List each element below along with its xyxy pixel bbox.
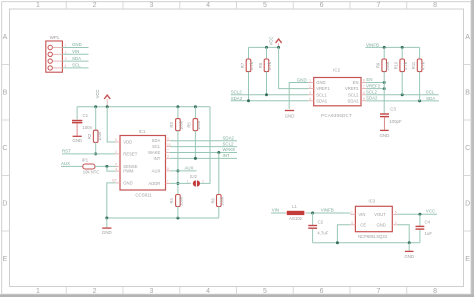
svg-text:CE: CE xyxy=(360,222,366,227)
svg-text:C4: C4 xyxy=(425,220,431,225)
wire net SCL2 (to IC2 SCL1) xyxy=(231,94,309,96)
svg-text:3: 3 xyxy=(167,155,169,159)
page edge right xyxy=(471,0,474,297)
solder jumper SJ2 xyxy=(187,174,204,187)
svg-text:L1: L1 xyxy=(292,204,297,209)
svg-text:E: E xyxy=(3,256,8,263)
frame column ticks bottom xyxy=(66,287,407,295)
svg-text:R11: R11 xyxy=(411,61,416,69)
svg-text:R9: R9 xyxy=(376,62,381,68)
junction VCC/R3 xyxy=(176,105,179,108)
svg-text:GND: GND xyxy=(297,77,307,82)
svg-text:1: 1 xyxy=(167,180,169,184)
junction R2/RST xyxy=(94,152,97,155)
svg-text:1: 1 xyxy=(309,79,311,83)
svg-text:SDA: SDA xyxy=(426,96,435,101)
wire IC2 GND pin xyxy=(289,83,308,109)
svg-text:2: 2 xyxy=(395,221,397,225)
wire VCC to VREF1 xyxy=(279,47,309,88)
wire CE to bottom rail xyxy=(337,225,350,243)
wire strap to PWM xyxy=(107,166,116,171)
svg-text:SCL: SCL xyxy=(152,144,161,149)
frame row ticks left xyxy=(1,65,9,232)
supply VCC symbol (above IC1) xyxy=(95,90,110,107)
junction R10/SCL xyxy=(401,93,404,96)
svg-text:C: C xyxy=(2,145,7,152)
frame column labels bottom xyxy=(36,288,437,295)
svg-text:100k: 100k xyxy=(179,196,184,206)
wire VCC rail (IC2 pullups) xyxy=(249,46,279,48)
svg-text:D: D xyxy=(2,201,7,208)
svg-text:SDA: SDA xyxy=(152,138,161,143)
wire L1 to IC3 VIN (net VINFB) xyxy=(306,212,350,214)
svg-text:1: 1 xyxy=(351,210,353,214)
junction rail/GND-pin xyxy=(408,241,411,244)
svg-text:PCA9306DCT: PCA9306DCT xyxy=(321,113,352,118)
ground symbol (C3) xyxy=(380,130,390,138)
svg-text:SCL2: SCL2 xyxy=(231,90,243,95)
svg-text:WAKE: WAKE xyxy=(148,150,160,155)
svg-text:SDA1: SDA1 xyxy=(316,98,328,103)
junction VCC/R5 xyxy=(194,105,197,108)
wire EP pad to ground rail xyxy=(107,183,116,218)
junction R3/AUX xyxy=(176,169,179,172)
capacitor C1 xyxy=(72,107,93,136)
junction VINFB/R9 xyxy=(383,46,386,49)
svg-text:EN: EN xyxy=(366,77,372,82)
svg-text:9: 9 xyxy=(167,137,169,141)
svg-text:2: 2 xyxy=(93,2,97,9)
resistor R5 100k xyxy=(187,107,201,159)
svg-text:3: 3 xyxy=(309,91,311,95)
svg-text:VIN: VIN xyxy=(272,208,279,213)
junction R5/INT xyxy=(194,157,197,160)
svg-text:VINFB: VINFB xyxy=(321,208,334,213)
wire ADDR to SJ2 xyxy=(170,182,191,184)
svg-text:4.7k: 4.7k xyxy=(403,61,408,70)
thermistor IP1 10k NTC xyxy=(82,157,100,174)
svg-text:GND: GND xyxy=(316,80,325,85)
junction R8/SCL2 xyxy=(265,93,268,96)
svg-text:2: 2 xyxy=(115,150,117,154)
wire WP1 pin1 net GND xyxy=(62,47,88,49)
svg-text:8: 8 xyxy=(433,288,437,295)
wire strap EN-VREF2-C3 xyxy=(383,83,385,114)
svg-text:PWM: PWM xyxy=(123,169,134,174)
ground symbol (C1) xyxy=(72,136,82,143)
junction R11/SDA xyxy=(418,99,421,102)
svg-text:SDA2: SDA2 xyxy=(231,96,243,101)
wire SJ2 to VCC drop xyxy=(200,107,210,184)
ground symbol (IC1 rail) xyxy=(102,218,112,235)
wire VOUT to VCC xyxy=(397,213,437,215)
IC U3: regulator IC3 NCP685LSQ33 xyxy=(350,198,397,239)
svg-text:R3: R3 xyxy=(169,122,174,128)
svg-text:VCC: VCC xyxy=(95,90,100,99)
capacitor C4 1uF xyxy=(416,214,433,242)
svg-text:3: 3 xyxy=(149,288,153,295)
page edge bottom xyxy=(0,294,474,297)
wire net SCL (IC2 right) xyxy=(366,94,439,96)
svg-text:100pF: 100pF xyxy=(389,119,402,124)
svg-text:4: 4 xyxy=(206,2,210,9)
svg-text:5: 5 xyxy=(363,97,365,101)
svg-text:6: 6 xyxy=(320,288,324,295)
capacitor C3 100pF xyxy=(380,107,402,130)
junction VCC/R2 xyxy=(94,105,97,108)
supply VCC symbol (above IC2) xyxy=(269,37,282,48)
wire AUX to IP1 xyxy=(61,165,83,167)
svg-text:SCL: SCL xyxy=(426,90,435,95)
svg-text:SDA: SDA xyxy=(72,56,81,61)
svg-text:IC3: IC3 xyxy=(369,198,376,203)
frame column labels top xyxy=(36,2,437,9)
svg-text:IP1: IP1 xyxy=(82,157,89,162)
svg-text:100k: 100k xyxy=(97,131,102,141)
svg-text:B: B xyxy=(3,90,8,97)
svg-text:8: 8 xyxy=(433,2,437,9)
resistor R6 100k xyxy=(210,153,224,219)
svg-text:IC1: IC1 xyxy=(139,129,146,134)
wire net SDA2 (IC1 SDA to label) xyxy=(170,140,237,142)
svg-text:GND: GND xyxy=(380,133,390,138)
junction GND rail / R4 xyxy=(176,217,179,220)
svg-text:INT: INT xyxy=(223,153,230,158)
svg-text:SCL2: SCL2 xyxy=(348,92,359,97)
svg-text:1: 1 xyxy=(36,288,40,295)
wire net RST xyxy=(62,153,116,155)
wire IP1 to SENSE xyxy=(95,165,116,167)
svg-text:GND: GND xyxy=(102,230,112,235)
svg-text:GND: GND xyxy=(72,42,82,47)
svg-text:5: 5 xyxy=(263,2,267,9)
svg-text:AUX: AUX xyxy=(185,166,194,171)
svg-text:VREF1: VREF1 xyxy=(316,86,330,91)
svg-text:2.7k: 2.7k xyxy=(267,61,272,70)
svg-text:VOUT: VOUT xyxy=(374,212,386,217)
svg-text:8: 8 xyxy=(363,79,365,83)
svg-text:1uF: 1uF xyxy=(425,231,433,236)
resistor R11 4.7k xyxy=(411,47,425,101)
wire net SCL2 (IC1 SCL to label) xyxy=(170,146,237,148)
svg-text:SDA2: SDA2 xyxy=(366,96,378,101)
svg-text:SCL: SCL xyxy=(72,63,81,68)
svg-text:WP1: WP1 xyxy=(50,35,60,40)
frame row ticks right xyxy=(464,65,472,232)
svg-text:C2: C2 xyxy=(318,219,324,224)
svg-text:D: D xyxy=(465,201,470,208)
IC U1: gas sensor IC1 CCS811 xyxy=(115,129,171,197)
svg-text:NCP685LSQ33: NCP685LSQ33 xyxy=(358,234,388,239)
svg-text:EP: EP xyxy=(112,179,117,183)
wire net INT xyxy=(170,157,237,159)
wire VREF2 xyxy=(366,88,384,90)
svg-text:AUX: AUX xyxy=(61,161,70,166)
svg-text:C1: C1 xyxy=(83,113,89,118)
junction rail/VCC pin xyxy=(277,46,280,49)
capacitor C2 4.7uF xyxy=(308,213,328,243)
wire VCC to VDD pin xyxy=(107,107,115,142)
svg-text:VIN: VIN xyxy=(72,49,79,54)
svg-text:IC2: IC2 xyxy=(333,67,340,72)
wire net WAKE xyxy=(170,152,237,154)
junction rail/R8 xyxy=(265,46,268,49)
wire net AUX (right of IC1) xyxy=(170,170,197,172)
svg-text:10k NTC: 10k NTC xyxy=(83,169,100,174)
svg-text:R6: R6 xyxy=(210,197,215,203)
svg-text:100k: 100k xyxy=(179,120,184,130)
svg-text:R4: R4 xyxy=(169,197,174,203)
svg-text:4.7uF: 4.7uF xyxy=(317,230,329,235)
resistor R9 200k xyxy=(376,47,390,82)
svg-text:5: 5 xyxy=(115,163,117,167)
junction R3/ADDR xyxy=(176,182,179,185)
svg-text:5: 5 xyxy=(263,288,267,295)
svg-text:CCS811: CCS811 xyxy=(135,192,152,197)
junction VREF2/C3 xyxy=(383,87,386,90)
svg-text:GND: GND xyxy=(376,222,385,227)
svg-text:VCC: VCC xyxy=(426,208,435,213)
junction VCC/VDD xyxy=(106,105,109,108)
resistor R8 2.7k xyxy=(258,47,272,94)
svg-text:VINFB: VINFB xyxy=(366,42,379,47)
svg-text:SJ2: SJ2 xyxy=(190,174,198,179)
svg-text:GND: GND xyxy=(285,114,295,119)
frame row labels right xyxy=(465,34,470,263)
svg-text:7: 7 xyxy=(167,149,169,153)
svg-text:3: 3 xyxy=(149,2,153,9)
svg-text:INT: INT xyxy=(154,156,161,161)
svg-text:100k: 100k xyxy=(196,120,201,130)
svg-text:GND: GND xyxy=(123,180,132,185)
junction SENSE/PWM strap xyxy=(105,165,108,168)
svg-text:C3: C3 xyxy=(390,107,396,112)
wire EN strap xyxy=(366,82,384,84)
svg-text:SCL2: SCL2 xyxy=(223,141,235,146)
resistor R10 4.7k xyxy=(394,47,408,94)
junction R7/SDA2 xyxy=(247,99,250,102)
resistor R2 100k xyxy=(87,107,102,154)
wire WP1 pin4 net SCL xyxy=(62,67,88,69)
svg-text:A: A xyxy=(3,34,8,41)
resistor R7 2.7k xyxy=(240,47,254,100)
wire VINFB rail xyxy=(366,46,420,48)
svg-text:R2: R2 xyxy=(87,133,92,139)
svg-text:RESET: RESET xyxy=(123,151,137,156)
svg-text:SDA2: SDA2 xyxy=(223,135,235,140)
svg-text:C: C xyxy=(465,145,470,152)
junction rail/CE xyxy=(336,241,339,244)
svg-text:1: 1 xyxy=(187,180,189,184)
svg-text:RST: RST xyxy=(62,148,71,153)
svg-text:VREF2: VREF2 xyxy=(345,86,359,91)
inductor L1 AG102 xyxy=(285,204,306,221)
IC U2: level translator IC2 PCA9306DCT xyxy=(309,67,367,118)
svg-text:B: B xyxy=(465,90,470,97)
svg-text:E: E xyxy=(465,256,470,263)
svg-text:GND: GND xyxy=(72,138,82,143)
svg-text:ADDR: ADDR xyxy=(148,181,160,186)
ground symbol (IC2) xyxy=(285,111,295,119)
wire net SDA (IC2 right) xyxy=(366,100,439,102)
svg-text:VDD: VDD xyxy=(123,140,132,145)
frame row labels left xyxy=(2,34,7,263)
svg-text:SCL2: SCL2 xyxy=(366,90,378,95)
connector WP1 xyxy=(46,35,67,72)
svg-text:2.7k: 2.7k xyxy=(249,61,254,70)
svg-text:8: 8 xyxy=(167,167,169,171)
wire GND rail (bottom of IC1) xyxy=(107,217,219,219)
svg-text:SCL1: SCL1 xyxy=(316,92,327,97)
svg-text:R5: R5 xyxy=(187,122,192,128)
svg-text:1: 1 xyxy=(36,2,40,9)
junction VINFB/C2 xyxy=(311,212,314,215)
svg-text:7: 7 xyxy=(376,288,380,295)
ground symbol (IC3) xyxy=(404,243,414,260)
wire IC3 GND pin down xyxy=(397,225,409,243)
svg-text:100k: 100k xyxy=(220,196,225,206)
svg-text:7: 7 xyxy=(363,85,365,89)
svg-text:R10: R10 xyxy=(394,61,399,69)
svg-text:2: 2 xyxy=(93,288,97,295)
svg-text:A: A xyxy=(465,34,470,41)
svg-text:AG102: AG102 xyxy=(289,216,303,221)
svg-text:AUX: AUX xyxy=(152,168,161,173)
svg-text:6: 6 xyxy=(320,2,324,9)
frame column ticks top xyxy=(66,1,407,9)
junction WAKE/R6 xyxy=(217,151,220,154)
svg-text:4: 4 xyxy=(206,288,210,295)
svg-text:EN: EN xyxy=(353,80,359,85)
wire LDO bottom ground rail xyxy=(313,242,420,244)
svg-text:2: 2 xyxy=(309,85,311,89)
svg-text:R8: R8 xyxy=(258,62,263,68)
wire WP1 pin3 net SDA xyxy=(62,60,88,62)
svg-text:4.7k: 4.7k xyxy=(420,61,425,70)
junction GND rail left xyxy=(105,217,108,220)
svg-text:VIN: VIN xyxy=(358,212,365,217)
svg-text:WAKE: WAKE xyxy=(223,147,236,152)
svg-text:4: 4 xyxy=(309,97,311,101)
wire VIN to L1 xyxy=(271,212,286,214)
svg-text:6: 6 xyxy=(363,91,365,95)
svg-text:4: 4 xyxy=(115,167,117,171)
junction VINFB/R10 xyxy=(401,46,404,49)
svg-text:R7: R7 xyxy=(240,62,245,68)
svg-text:200k: 200k xyxy=(385,61,390,71)
wire net SDA2 (to IC2 SDA1) xyxy=(231,100,309,102)
resistor R4 100k xyxy=(169,195,183,219)
svg-text:3: 3 xyxy=(351,221,353,225)
junction EN/strap xyxy=(383,81,386,84)
wire WP1 pin2 net VIN xyxy=(62,53,88,55)
junction VOUT/C4 xyxy=(418,213,421,216)
wire VCC rail xyxy=(77,106,210,108)
svg-text:100n: 100n xyxy=(82,125,92,130)
resistor R3 100k xyxy=(169,107,183,195)
svg-text:VCC: VCC xyxy=(269,37,274,46)
svg-text:5: 5 xyxy=(395,210,397,214)
svg-text:GND: GND xyxy=(404,254,414,259)
svg-text:VREF2: VREF2 xyxy=(366,83,381,88)
svg-text:SDA2: SDA2 xyxy=(348,98,360,103)
svg-text:7: 7 xyxy=(376,2,380,9)
